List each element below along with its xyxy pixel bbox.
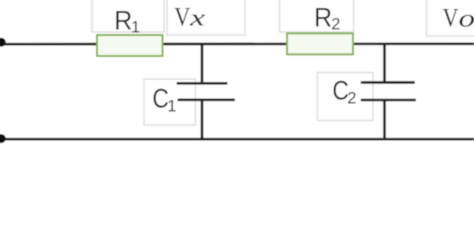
label C2 — [332, 76, 356, 108]
capacitor C2 top plate — [361, 81, 415, 84]
svg-text:V: V — [443, 4, 459, 33]
svg-text:2: 2 — [347, 90, 356, 108]
svg-text:R: R — [314, 2, 332, 32]
wire: top rail — [2, 42, 474, 45]
wire: bottom rail — [2, 138, 474, 141]
resistor R1 — [97, 35, 163, 56]
label box for C2 — [318, 73, 374, 121]
node label Vx — [174, 3, 205, 32]
svg-text:1: 1 — [131, 19, 140, 37]
label R1 — [114, 6, 140, 37]
wire: Vx node stub down to C1 — [201, 43, 204, 83]
capacitor C1 bottom plate — [178, 99, 235, 102]
svg-text:2: 2 — [331, 15, 340, 33]
label box for node Vx — [167, 0, 245, 35]
resistor R2 — [287, 33, 353, 54]
svg-text:V: V — [174, 3, 190, 32]
label R2 — [314, 2, 340, 33]
svg-text:x: x — [189, 6, 206, 32]
label box for R2 — [280, 0, 354, 32]
capacitor C1 top plate — [177, 82, 228, 85]
svg-text:1: 1 — [167, 98, 176, 116]
svg-text:o: o — [459, 6, 474, 33]
label box for node Vo — [427, 0, 474, 36]
label C1 — [152, 84, 176, 116]
label box for R1 — [92, 0, 164, 32]
capacitor C2 bottom plate — [361, 99, 416, 102]
wire: Vo node stub down to C2 — [383, 43, 386, 82]
svg-text:R: R — [114, 6, 132, 36]
node: input terminal (top left) — [0, 38, 6, 47]
wire: C2 to bottom rail — [383, 100, 386, 140]
wire: C1 to bottom rail — [201, 100, 204, 140]
node label Vo — [443, 4, 474, 33]
label box for C1 — [144, 79, 196, 125]
node: input terminal (bottom left) — [0, 134, 6, 143]
